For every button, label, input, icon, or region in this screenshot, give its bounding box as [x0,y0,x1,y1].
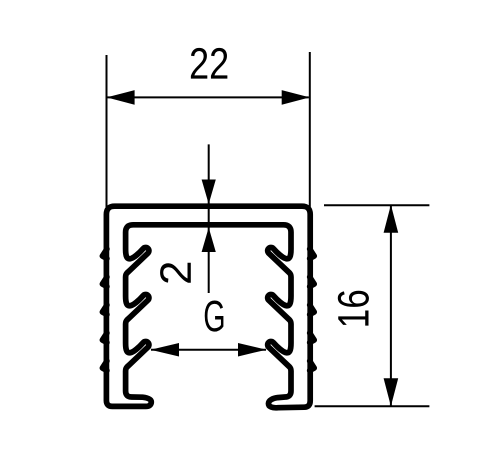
arrowhead G right [238,343,267,357]
dim 16 extension line top [324,204,429,206]
dim G dimension line [151,349,266,351]
arrowhead 16 top [384,205,399,233]
dim 22 extension line right [309,52,311,207]
arrowhead 22 left [107,90,135,105]
label 22 [191,48,228,79]
dim 2 dimension line [208,144,210,293]
label G [205,300,224,331]
dim 16 dimension line [390,206,392,406]
arrowhead 16 bottom [384,378,399,406]
dim 22 dimension line [108,96,309,98]
arrowhead 22 right [282,90,310,105]
arrowhead G left [151,343,180,357]
dim 22 extension line left [106,55,108,207]
label 16 [338,291,369,326]
serration nubs on outer walls [102,249,107,259]
dim 16 extension line bottom [315,405,430,407]
arrowhead 2 upper [202,180,216,205]
profile cross-section outline [106,206,310,408]
label 2 [160,263,191,283]
arrowhead 2 lower [202,228,216,253]
